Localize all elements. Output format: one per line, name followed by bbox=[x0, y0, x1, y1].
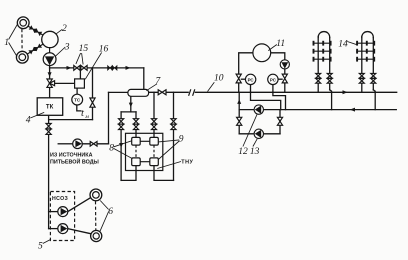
pointer label 3 bbox=[55, 47, 65, 56]
wire supply line after break bbox=[195, 91, 396, 93]
svg-text:4: 4 bbox=[26, 115, 31, 125]
wire vert3 into TR bbox=[153, 92, 155, 137]
wire tm horizontal bbox=[49, 119, 93, 121]
wire pump group right vertical bbox=[279, 110, 281, 134]
return arrow left bbox=[350, 108, 355, 112]
wire vertical x=92.5 hot water bbox=[92, 68, 94, 120]
pointer label 11 bbox=[268, 45, 277, 51]
double valve on TK downline bbox=[46, 124, 51, 129]
wire PC2 step bbox=[273, 92, 286, 109]
wire U-right under TNU bbox=[154, 166, 174, 181]
heat exchanger 7 bbox=[128, 89, 149, 96]
svg-text:10: 10 bbox=[214, 73, 224, 83]
wire 3way valve to square bbox=[50, 82, 75, 84]
wire pump3 to top junction bbox=[49, 66, 51, 68]
riser2 bottom valves right bbox=[371, 73, 376, 78]
wire riser2 right vertical bbox=[372, 38, 374, 90]
svg-text:РС: РС bbox=[248, 77, 255, 82]
wire pump group left vertical bbox=[238, 92, 240, 134]
valve pump group right bbox=[277, 117, 282, 125]
wire riser1 left vertical bbox=[317, 37, 319, 93]
wire PC2 stem bbox=[272, 85, 274, 93]
wire PC2 link bbox=[278, 78, 282, 80]
wire PC1 stem bbox=[250, 85, 252, 93]
riser1 bottom valves right bbox=[327, 73, 332, 78]
wire circle11 right branch bbox=[271, 53, 285, 60]
TNU outer box bbox=[126, 133, 163, 170]
pump 8 bbox=[73, 139, 83, 149]
wire PC1 link bbox=[241, 78, 245, 80]
pointer label 2 bbox=[56, 29, 62, 34]
svg-text:16: 16 bbox=[99, 45, 109, 55]
arrow down to 3way bbox=[48, 72, 52, 77]
wire circle2 to pump3 bbox=[49, 48, 51, 53]
riser2 bottom valves left bbox=[359, 73, 364, 78]
riser1 bottom valves left bbox=[316, 73, 321, 78]
wire pump11 down bbox=[284, 69, 286, 92]
wire square stem up bbox=[79, 68, 81, 79]
svg-text:14: 14 bbox=[338, 39, 348, 49]
pump B bbox=[58, 224, 68, 234]
wire BL-BR bbox=[140, 161, 150, 163]
svg-text:ТС: ТС bbox=[74, 98, 81, 103]
pointer label 15 bbox=[76, 53, 83, 64]
supply arrow right bbox=[343, 90, 348, 94]
dashed well6 link bbox=[95, 201, 97, 230]
wire НСОЗ pump stubs bbox=[49, 211, 58, 213]
wire TC tail bbox=[77, 105, 81, 111]
arrow down vert1 bbox=[119, 143, 123, 148]
svg-text:3: 3 bbox=[64, 42, 70, 52]
wire vert2 into TL bbox=[135, 112, 137, 137]
PC1 controller bbox=[245, 74, 255, 84]
svg-text:6: 6 bbox=[108, 207, 113, 217]
wire exchanger bottom drop bbox=[130, 96, 132, 112]
wire riser1 U-turn bbox=[318, 32, 330, 38]
pipe break symbol bbox=[189, 89, 195, 96]
wire top main line y=67.9 bbox=[50, 67, 144, 69]
pump A bbox=[58, 207, 68, 217]
pointer label 5 bbox=[43, 239, 51, 243]
valve on top diagonal b bbox=[34, 29, 41, 36]
pointer label 1 bbox=[9, 25, 18, 56]
valve pair C a bbox=[108, 66, 113, 71]
valve on bottom diagonal a bbox=[29, 47, 36, 54]
pump 13 bbox=[254, 129, 263, 138]
riser2 radiator rows bbox=[356, 41, 375, 62]
valve pump group left bbox=[237, 117, 242, 125]
dashed TR-BR bbox=[153, 145, 155, 158]
valve 15 a bbox=[74, 66, 80, 71]
double valve vert1 bbox=[119, 119, 124, 124]
wire return line bbox=[239, 109, 396, 111]
TK box bbox=[37, 98, 63, 116]
3-way valve bbox=[47, 79, 55, 87]
pointer label 7 bbox=[146, 84, 157, 91]
well 6 top bbox=[90, 189, 102, 201]
wire TK downline bbox=[48, 115, 50, 228]
wire U-left under TNU bbox=[121, 166, 136, 181]
svg-text:НСОЗ: НСОЗ bbox=[52, 196, 68, 202]
wire up to exchanger left bbox=[108, 92, 110, 143]
pointer label 8 bbox=[114, 141, 132, 159]
wire square to TC bbox=[76, 88, 78, 94]
svg-text:ИЗ ИСТОЧНИКА: ИЗ ИСТОЧНИКА bbox=[50, 153, 93, 159]
valve on bottom diagonal b bbox=[34, 44, 41, 51]
valve circle11 right bbox=[282, 74, 287, 83]
circle 11 bbox=[253, 44, 271, 62]
svg-text:ТНУ: ТНУ bbox=[181, 160, 193, 166]
regulator square 15/16 bbox=[75, 79, 85, 88]
wire riser1 right vertical bbox=[329, 38, 331, 90]
tank circle 2 bbox=[42, 31, 58, 47]
TNU square BR bbox=[150, 158, 159, 166]
svg-text:13: 13 bbox=[250, 147, 260, 157]
svg-text:ПИТЬЕВОЙ ВОДЫ: ПИТЬЕВОЙ ВОДЫ bbox=[50, 157, 99, 165]
pointer label 14 bbox=[347, 42, 357, 45]
double valve vert3 bbox=[151, 119, 156, 124]
wire diagonal well1b to circle2 bbox=[27, 44, 43, 54]
TNU square TR bbox=[150, 137, 159, 145]
pump 12 bbox=[254, 105, 263, 114]
arrow right on top line bbox=[67, 66, 72, 70]
well 1 bottom (double circle) bbox=[16, 51, 28, 63]
wire TL-TR bbox=[140, 140, 150, 142]
double valve vert2 bbox=[133, 119, 138, 124]
pump group up arrow bbox=[237, 99, 241, 104]
wire pump group bottom bbox=[239, 133, 280, 135]
wire diagonal well1a to circle2 bbox=[28, 26, 43, 35]
TNU square TL bbox=[132, 137, 141, 145]
wire supply line from exchanger to break bbox=[149, 91, 189, 93]
valve circle11 left bbox=[236, 74, 241, 83]
TNU square BL bbox=[132, 158, 141, 166]
svg-text:1: 1 bbox=[4, 38, 9, 48]
wire riser2 return jog bbox=[373, 90, 375, 110]
pointer label 6 bbox=[100, 201, 109, 232]
wire pumpB to well6 bottom bbox=[68, 229, 91, 234]
pointer label 16 bbox=[85, 53, 101, 80]
pump 3 bbox=[43, 53, 56, 66]
arrow right before exchanger turn bbox=[126, 66, 131, 70]
riser1 radiator rows bbox=[313, 41, 332, 62]
wire pumpA to well6 top bbox=[68, 198, 91, 212]
НСОЗ dashed box bbox=[50, 192, 74, 241]
svg-text:15: 15 bbox=[79, 44, 89, 54]
wire riser2 left vertical bbox=[361, 37, 363, 93]
svg-text:5: 5 bbox=[38, 242, 43, 252]
svg-text:8: 8 bbox=[109, 144, 114, 154]
double valve vert4 bbox=[171, 119, 176, 124]
wire PC1 step bbox=[251, 92, 281, 109]
well 1 top (double circle) bbox=[17, 17, 29, 29]
wire riser2 U-turn bbox=[362, 32, 374, 38]
wire water source line bbox=[58, 143, 72, 145]
svg-text:ТК: ТК bbox=[46, 105, 54, 111]
valve on top diagonal a bbox=[29, 26, 36, 33]
svg-text:12: 12 bbox=[238, 147, 248, 157]
svg-text:2: 2 bbox=[62, 24, 67, 34]
label TNU bbox=[157, 162, 181, 169]
valve pair C b bbox=[112, 66, 117, 71]
dashed link wells 1 bbox=[21, 29, 23, 51]
wire riser1 return jog bbox=[330, 90, 332, 110]
pointer label 4 bbox=[30, 112, 44, 118]
pointer label 13 bbox=[253, 139, 257, 147]
valve on x=92.5 vertical bbox=[90, 98, 95, 107]
pointer label 9 bbox=[158, 140, 179, 160]
dashed TL-BL bbox=[135, 145, 137, 158]
svg-text:11: 11 bbox=[276, 39, 285, 49]
valve on supply after exchanger bbox=[158, 90, 166, 95]
wire junction down from y=67.9 to TK bbox=[49, 68, 51, 98]
arrow down under exchanger bbox=[129, 103, 133, 108]
svg-text:м: м bbox=[84, 114, 89, 120]
valve after pump 8 bbox=[90, 142, 97, 147]
wire vert4 outer-right TNU bbox=[173, 92, 175, 180]
well 6 bottom bbox=[91, 230, 102, 241]
pointer label 12 bbox=[243, 115, 257, 147]
wire split under exchanger bbox=[121, 111, 136, 113]
pointer label 10 bbox=[208, 82, 215, 91]
svg-text:9: 9 bbox=[179, 134, 184, 144]
wire vert1 outer-left TNU bbox=[120, 112, 122, 180]
pump on circle11 right branch bbox=[280, 60, 289, 69]
wire down to exchanger top bbox=[143, 68, 145, 90]
svg-text:РС: РС bbox=[270, 77, 277, 82]
valve 15 b bbox=[81, 66, 87, 71]
sensor TC circle bbox=[72, 94, 83, 105]
wire circle11 left branch bbox=[239, 53, 253, 93]
PC2 controller bbox=[268, 74, 278, 84]
